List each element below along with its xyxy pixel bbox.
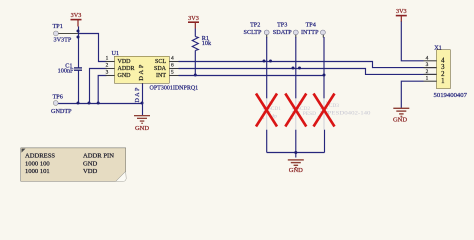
no-fit cross X over CD3	[314, 94, 335, 127]
wire R1 top	[194, 29, 196, 37]
svg-text:OPT3001IDNPRQ1: OPT3001IDNPRQ1	[150, 86, 199, 92]
svg-text:SDA: SDA	[154, 66, 167, 72]
note box address table	[21, 148, 126, 181]
wire R1 bottom to INT	[194, 51, 196, 76]
svg-text:3V3TP: 3V3TP	[54, 36, 72, 43]
svg-text:1000 101: 1000 101	[25, 168, 50, 175]
DNP component CD1	[261, 98, 281, 129]
svg-text:100nF: 100nF	[58, 68, 74, 75]
svg-text:GND: GND	[135, 125, 149, 132]
wire TP2 to SCL	[266, 37, 268, 62]
svg-text:GND: GND	[393, 117, 407, 124]
svg-text:10k: 10k	[202, 40, 212, 47]
wire GND pin to GND rail	[98, 76, 106, 104]
junction dot R1/INT	[194, 74, 197, 77]
resistor R1 10k	[192, 35, 212, 51]
capacitor C1	[58, 63, 82, 75]
svg-text:SDATP: SDATP	[273, 29, 292, 36]
svg-text:VDD: VDD	[118, 59, 132, 65]
svg-text:PESD0402-140: PESD0402-140	[328, 111, 371, 117]
wire INT bus	[179, 75, 325, 77]
testpoint TP2	[244, 22, 269, 38]
DNP component CD3	[318, 98, 371, 129]
svg-text:1: 1	[426, 76, 429, 82]
wire SCL bus	[179, 62, 437, 68]
svg-text:3V3: 3V3	[188, 15, 199, 22]
ground GND (right)	[393, 108, 409, 124]
svg-text:GND: GND	[289, 167, 303, 174]
svg-text:INT: INT	[156, 73, 166, 79]
svg-text:4: 4	[171, 56, 174, 62]
wire 3V3 vertical to C1	[78, 27, 80, 69]
svg-text:CD1: CD1	[271, 106, 281, 112]
wire TP3 to SDA	[295, 37, 297, 69]
svg-text:DAP: DAP	[134, 87, 141, 103]
testpoint TP3	[273, 22, 298, 38]
svg-text:GND: GND	[83, 160, 98, 167]
svg-text:DAP: DAP	[138, 64, 145, 81]
svg-text:1: 1	[106, 56, 109, 62]
connector X1	[424, 45, 468, 99]
svg-text:5019400407: 5019400407	[434, 92, 468, 99]
wire TP1 to 3V3 net	[58, 33, 78, 35]
junction dots TP2/SCL	[263, 60, 273, 63]
wire CD1 bottom	[266, 130, 268, 153]
junction dots on 3V3 net	[77, 30, 80, 39]
testpoint TP1	[53, 23, 72, 43]
svg-text:TP6: TP6	[53, 94, 63, 101]
svg-text:TP1: TP1	[53, 23, 63, 30]
junction dots GND rail	[77, 102, 144, 105]
svg-text:4: 4	[426, 55, 429, 61]
svg-text:TP2: TP2	[250, 22, 260, 29]
power 3V3 (middle, R1)	[188, 15, 199, 29]
wire CD2 bottom	[295, 130, 297, 158]
svg-text:ADDR: ADDR	[118, 66, 135, 72]
wire DAP to GND	[142, 84, 144, 116]
svg-text:1000 100: 1000 100	[25, 160, 50, 167]
svg-text:ADDR PIN: ADDR PIN	[83, 153, 114, 160]
testpoint TP6	[51, 94, 72, 115]
svg-text:CD3: CD3	[329, 103, 339, 109]
svg-text:6: 6	[171, 63, 174, 69]
svg-text:3: 3	[426, 62, 429, 68]
net label DAP	[134, 87, 141, 103]
svg-text:U1: U1	[112, 50, 120, 57]
power 3V3 (left)	[71, 12, 82, 27]
svg-text:VDD: VDD	[83, 168, 98, 175]
junction dot TP4/INT	[323, 74, 326, 77]
svg-text:INTTP: INTTP	[301, 29, 319, 36]
wire X1 pin 1 to GND	[401, 81, 423, 108]
svg-text:ADDRESS: ADDRESS	[25, 153, 55, 160]
wire ADDR to GND rail	[90, 69, 107, 104]
svg-text:GNDTP: GNDTP	[51, 108, 72, 115]
power 3V3 (right)	[396, 8, 407, 22]
svg-text:SCLTP: SCLTP	[244, 29, 263, 36]
wire CD3 bottom	[324, 130, 326, 153]
svg-text:3: 3	[106, 70, 109, 76]
svg-text:3V3: 3V3	[396, 8, 407, 15]
wire TP4 to INT	[323, 37, 325, 98]
junction dots TP3/SDA	[292, 67, 302, 70]
wire bottom rail	[267, 152, 325, 154]
svg-text:GND: GND	[118, 73, 132, 79]
ground GND (left, DAP)	[134, 115, 150, 132]
DNP component CD2	[290, 98, 316, 129]
svg-text:PESD: PESD	[303, 111, 316, 117]
wire 3V3 to X1 pin 4	[401, 22, 423, 61]
op IC U1 OPT3001	[106, 50, 199, 92]
svg-text:2: 2	[106, 63, 109, 69]
svg-text:2: 2	[426, 69, 429, 75]
svg-text:TP4: TP4	[306, 22, 316, 29]
wire C1 bottom to GND rail	[78, 71, 80, 104]
wire VDD branch	[79, 34, 107, 62]
junction dot bottom rail	[294, 151, 297, 154]
svg-text:5: 5	[171, 70, 174, 76]
testpoint TP4	[301, 22, 325, 38]
svg-text:SCL: SCL	[155, 59, 166, 65]
wire SDA to CD2	[295, 69, 297, 99]
ground GND (middle)	[288, 159, 304, 174]
wire SCL to CD1	[266, 62, 268, 99]
wire GND rail	[58, 103, 142, 105]
svg-text:3V3: 3V3	[71, 12, 82, 19]
wire SDA bus	[179, 69, 437, 75]
svg-text:1: 1	[441, 78, 444, 85]
no-fit cross X over CD2	[285, 94, 306, 127]
svg-text:TP3: TP3	[277, 22, 287, 29]
no-fit cross X over CD1	[256, 94, 277, 127]
